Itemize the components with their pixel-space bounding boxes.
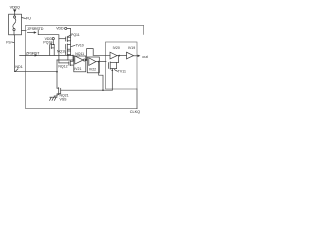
fuse FU box	[9, 14, 22, 35]
wire latch input	[67, 55, 69, 60]
wire ND1	[14, 35, 57, 72]
svg-text:NQ10: NQ10	[57, 50, 66, 54]
svg-text:NQ11: NQ11	[75, 52, 84, 56]
svg-text:IV22: IV22	[89, 68, 96, 72]
wire IV22 out	[96, 61, 106, 63]
svg-text:NQ12: NQ12	[58, 64, 67, 68]
ground VSS	[54, 96, 57, 97]
node junction dot	[67, 55, 69, 57]
wire NQ12 gate	[59, 62, 69, 64]
svg-text:IV21: IV21	[74, 67, 81, 71]
wire ZFSRST line	[20, 54, 73, 56]
wire fuse to box	[22, 30, 26, 32]
svg-text:out: out	[142, 54, 148, 59]
svg-text:TV10: TV10	[75, 44, 83, 48]
svg-text:VDD: VDD	[56, 27, 64, 31]
outer box bottom	[26, 108, 137, 110]
outer box top	[26, 24, 144, 26]
wire latch to IV20	[93, 54, 110, 56]
svg-text:FS: FS	[6, 40, 11, 44]
svg-text:IV20: IV20	[113, 46, 120, 50]
transistor NQ21	[58, 88, 60, 95]
arrow ZFSRST	[35, 54, 38, 56]
svg-text:TV11: TV11	[118, 70, 126, 74]
wire ZFSRSTD net	[38, 30, 59, 63]
svg-text:IV19: IV19	[128, 46, 135, 50]
outer box left	[25, 25, 27, 108]
wire CLKQ	[136, 89, 138, 109]
svg-text:FU: FU	[26, 17, 31, 21]
inverter IV21	[75, 56, 83, 64]
power VDDQ arrow	[13, 9, 16, 12]
wire feedback loop	[87, 49, 94, 60]
svg-text:ND1: ND1	[15, 65, 22, 69]
svg-text:VSS: VSS	[60, 98, 68, 102]
inverter IV22 box	[87, 57, 99, 73]
svg-text:VDDQ: VDDQ	[10, 5, 20, 9]
svg-text:ZFSRSTD: ZFSRSTD	[27, 27, 43, 31]
outer box right stub	[143, 25, 145, 34]
fuse FU squiggle	[14, 14, 16, 16]
arrow ZFSRSTD	[27, 32, 34, 34]
wire out	[134, 55, 138, 57]
transmission gate TV11	[118, 56, 120, 63]
wire NQ21 gate line	[61, 89, 113, 91]
wire PQ11 gate	[59, 38, 66, 40]
wire TV11 to gate line	[111, 69, 113, 91]
wire node ND1 vertical	[56, 60, 58, 88]
inner box	[106, 42, 138, 89]
svg-text:PQ11: PQ11	[71, 33, 80, 37]
wire IV20 to IV19	[117, 55, 127, 57]
arrow out	[138, 55, 141, 57]
wire PQ10 gate stub	[49, 48, 51, 55]
inverter IV21 box	[74, 56, 86, 72]
svg-text:CLKQ: CLKQ	[130, 110, 140, 114]
wire feedback to NQ21 gate	[99, 62, 103, 91]
wire IV21 out	[85, 59, 87, 61]
inverter IV22	[89, 58, 96, 66]
svg-text:ZFSRST: ZFSRST	[26, 51, 40, 55]
